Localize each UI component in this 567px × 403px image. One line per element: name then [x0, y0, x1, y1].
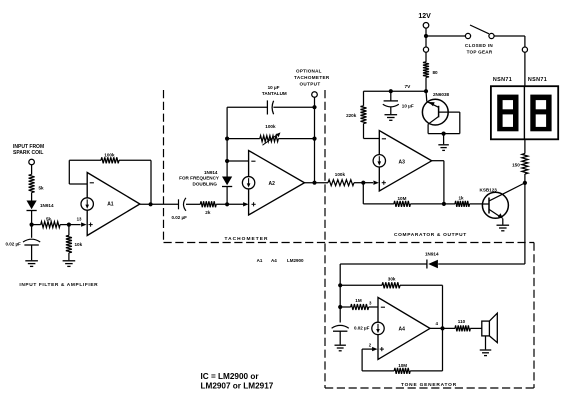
tone generator box bottom dashed edge [325, 387, 534, 389]
wire A3 - input [364, 138, 380, 140]
wire [31, 245, 33, 260]
wire (tone input vertical) [339, 264, 341, 323]
node (feedback mid) [312, 137, 316, 141]
wire [31, 211, 33, 225]
pin 3 label [369, 300, 372, 305]
svg-text:80: 80 [433, 70, 439, 75]
12V supply terminal [418, 13, 431, 36]
svg-text:1N914: 1N914 [425, 251, 439, 256]
svg-text:OUTPUT: OUTPUT [300, 82, 321, 87]
note A1 A4 LM2900 [257, 258, 304, 263]
label INPUT FROM SPARK COIL [13, 144, 44, 156]
node (7V cap) [389, 89, 393, 93]
transistor 2N6038 (zener regulator) [422, 91, 459, 133]
svg-text:FOR FREQUENCY: FOR FREQUENCY [179, 176, 219, 181]
wire (30k to output) [442, 285, 444, 371]
wire [426, 35, 465, 37]
svg-text:1k: 1k [459, 196, 465, 201]
op-amp A2 (Norton tachometer) [242, 151, 304, 216]
diode 1N914 (input clamp) [27, 201, 54, 211]
svg-text:2: 2 [369, 342, 372, 347]
diode 1N914 (tone gate) [340, 251, 439, 268]
note IC types [201, 372, 274, 391]
wire A2 - input [227, 160, 249, 162]
transistor KSB123 (display driver) [480, 183, 525, 225]
wire A4 + input [362, 342, 378, 351]
svg-text:A2: A2 [269, 181, 276, 187]
svg-text:100k: 100k [265, 124, 276, 129]
svg-text:0.02 µF: 0.02 µF [354, 325, 370, 330]
svg-text:10M: 10M [398, 196, 407, 201]
svg-text:10k: 10k [75, 242, 83, 247]
svg-text:0.02 µF: 0.02 µF [5, 241, 21, 246]
node (A2 output) [312, 181, 316, 185]
resistor 2k [200, 201, 216, 215]
optional tachometer output terminal [294, 69, 330, 183]
svg-text:TONE GENERATOR: TONE GENERATOR [401, 382, 457, 388]
svg-text:4: 4 [436, 321, 439, 326]
resistor 1k [455, 196, 483, 207]
ground (under speaker) [480, 350, 492, 356]
label 1N914 FOR FREQUENCY DOUBLING [179, 170, 219, 187]
wire A2 output [305, 182, 329, 184]
node (transistor ground) [442, 132, 446, 145]
svg-text:30k: 30k [388, 276, 396, 281]
node (7V) [424, 89, 428, 93]
svg-text:150: 150 [512, 163, 520, 168]
input terminal from spark coil [29, 159, 35, 174]
svg-text:12V: 12V [418, 13, 431, 20]
svg-text:KSB123: KSB123 [480, 187, 498, 192]
tachometer box left dashed edge [163, 90, 165, 243]
7V rail [364, 84, 427, 91]
resistor 10k (to ground) [66, 225, 83, 261]
ground (under 10uF) [385, 115, 398, 121]
node (A4 output) [440, 326, 444, 330]
resistor 5k (series input) [29, 175, 44, 193]
diode 1N914 (frequency doubling) [222, 161, 232, 204]
resistor 80 [423, 62, 438, 91]
capacitor 0.02uF (coupling) [172, 198, 188, 220]
svg-text:A3: A3 [399, 159, 406, 165]
capacitor 10uF (7V filter) [383, 91, 414, 114]
svg-text:0.02 µF: 0.02 µF [172, 215, 188, 220]
resistor 1M [340, 298, 378, 310]
node (12V) [424, 34, 428, 38]
node (30k tap) [338, 283, 342, 287]
pin 13 label [77, 217, 82, 222]
svg-text:100k: 100k [335, 172, 346, 177]
op-amp A1 (Norton input amplifier) [81, 173, 140, 236]
node (A3 output to 1k) [442, 202, 446, 206]
svg-text:NSN71: NSN71 [528, 77, 547, 83]
resistor 100k (A1 feedback) [69, 153, 151, 205]
speaker [482, 313, 498, 349]
resistor 220k [346, 91, 366, 138]
svg-text:IC = LM2900 or: IC = LM2900 or [201, 372, 260, 381]
display NSN71 labels [493, 77, 547, 83]
svg-text:10 µF: 10 µF [268, 85, 280, 90]
op-amp A4 (Norton tone generator) [372, 297, 430, 359]
wire [31, 193, 33, 201]
resistor 10M (A3 feedback) [363, 183, 444, 207]
svg-text:INPUT FROM: INPUT FROM [13, 144, 44, 150]
svg-text:COMPARATOR & OUTPUT: COMPARATOR & OUTPUT [394, 232, 467, 238]
node (feedback top) [312, 105, 316, 109]
resistor 100k (comparator input) [328, 172, 363, 186]
node (display cathode) [523, 181, 527, 185]
svg-text:5k: 5k [39, 186, 45, 191]
ground (under KSB123) [497, 225, 510, 231]
node (A3 + input) [361, 181, 379, 185]
capacitor 0.02uF (input filter) [5, 239, 40, 246]
svg-text:INPUT FILTER & AMPLIFIER: INPUT FILTER & AMPLIFIER [19, 282, 98, 288]
wire A3 output [432, 161, 444, 204]
wire [444, 203, 455, 205]
connector (regulator supply) [423, 47, 428, 62]
svg-text:SPARK COIL: SPARK COIL [13, 150, 43, 156]
svg-text:A4: A4 [271, 258, 277, 263]
caption TONE GENERATOR [401, 382, 457, 388]
svg-text:A4: A4 [399, 327, 406, 333]
capacitor 10uF tantalum (A2 feedback) [227, 100, 314, 114]
op-amp A3 (Norton comparator) [373, 131, 432, 191]
svg-text:3: 3 [369, 300, 372, 305]
wire to A2 + input [216, 202, 248, 206]
node (A2 - input) [225, 159, 229, 163]
7-segment display pair (outer box) [491, 86, 558, 139]
svg-text:TACHOMETER: TACHOMETER [294, 75, 330, 80]
svg-text:10M: 10M [398, 363, 407, 368]
7-segment digit 8 (right) [530, 95, 551, 132]
ground (under 0.02uF) [25, 261, 38, 267]
resistor 100k variable (A2 feedback) [227, 124, 314, 145]
svg-text:TOP GEAR: TOP GEAR [467, 49, 493, 54]
ground (under 2N6038) [438, 145, 449, 151]
wire (to tone generator) [438, 174, 525, 264]
svg-text:1N914: 1N914 [40, 203, 54, 208]
node (1M tap) [338, 305, 342, 309]
svg-text:5k: 5k [46, 216, 52, 221]
svg-text:13: 13 [77, 217, 82, 222]
svg-text:A1: A1 [257, 258, 263, 263]
resistor 110 [455, 319, 482, 332]
svg-text:2N6038: 2N6038 [433, 92, 450, 97]
svg-text:1M: 1M [355, 298, 362, 303]
svg-text:TANTALUM: TANTALUM [262, 91, 287, 96]
connector (display supply) [522, 47, 527, 86]
svg-text:CLOSED IN: CLOSED IN [465, 43, 493, 48]
svg-text:DOUBLING: DOUBLING [193, 182, 218, 187]
resistor 10M (A4 feedback) [362, 349, 442, 374]
caption INPUT FILTER &amp; AMPLIFIER [19, 282, 98, 288]
resistor 30k [340, 276, 442, 288]
svg-text:220k: 220k [346, 113, 357, 118]
wire [494, 36, 525, 47]
wire to A1 + input [69, 222, 87, 226]
tachometer/tone-gen shared dashed edge [324, 90, 326, 388]
label 10uF TANTALUM [262, 85, 287, 96]
wire [425, 36, 427, 47]
wire (display bottom) [524, 139, 526, 153]
wire (A2 feedback left vertical) [225, 107, 229, 161]
ground (under tone cap) [335, 345, 346, 351]
svg-text:7V: 7V [405, 84, 412, 90]
svg-text:LM2907 or LM2917: LM2907 or LM2917 [201, 382, 274, 391]
svg-text:2k: 2k [205, 210, 211, 215]
wire [186, 203, 200, 205]
wire [31, 225, 33, 238]
tone generator box right dashed edge [533, 243, 535, 389]
svg-text:10 µF: 10 µF [402, 103, 414, 108]
svg-text:100k: 100k [104, 153, 115, 158]
svg-text:110: 110 [458, 319, 466, 324]
caption TACHOMETER [225, 236, 269, 242]
svg-text:TACHOMETER: TACHOMETER [225, 236, 269, 242]
svg-text:NSN71: NSN71 [493, 77, 512, 83]
7-segment digit 8 (left) [497, 95, 518, 132]
svg-text:1N914: 1N914 [204, 170, 218, 175]
caption COMPARATOR &amp; OUTPUT [394, 232, 467, 238]
resistor 150 [512, 154, 528, 175]
switch CLOSED IN TOP GEAR [465, 25, 494, 54]
wire A4 output [430, 321, 455, 329]
svg-text:LM2900: LM2900 [287, 258, 304, 263]
dashed horizontal boundary [164, 242, 535, 244]
svg-text:OPTIONAL: OPTIONAL [296, 69, 322, 74]
node A (input filter node) [30, 223, 34, 227]
capacitor 0.02uF (tone timing) [332, 325, 370, 344]
ground (under 10k) [63, 261, 76, 267]
node B [67, 223, 71, 227]
resistor 5k (to amplifier) [32, 216, 69, 227]
svg-text:A1: A1 [107, 201, 114, 207]
wire A1 output [140, 202, 179, 206]
